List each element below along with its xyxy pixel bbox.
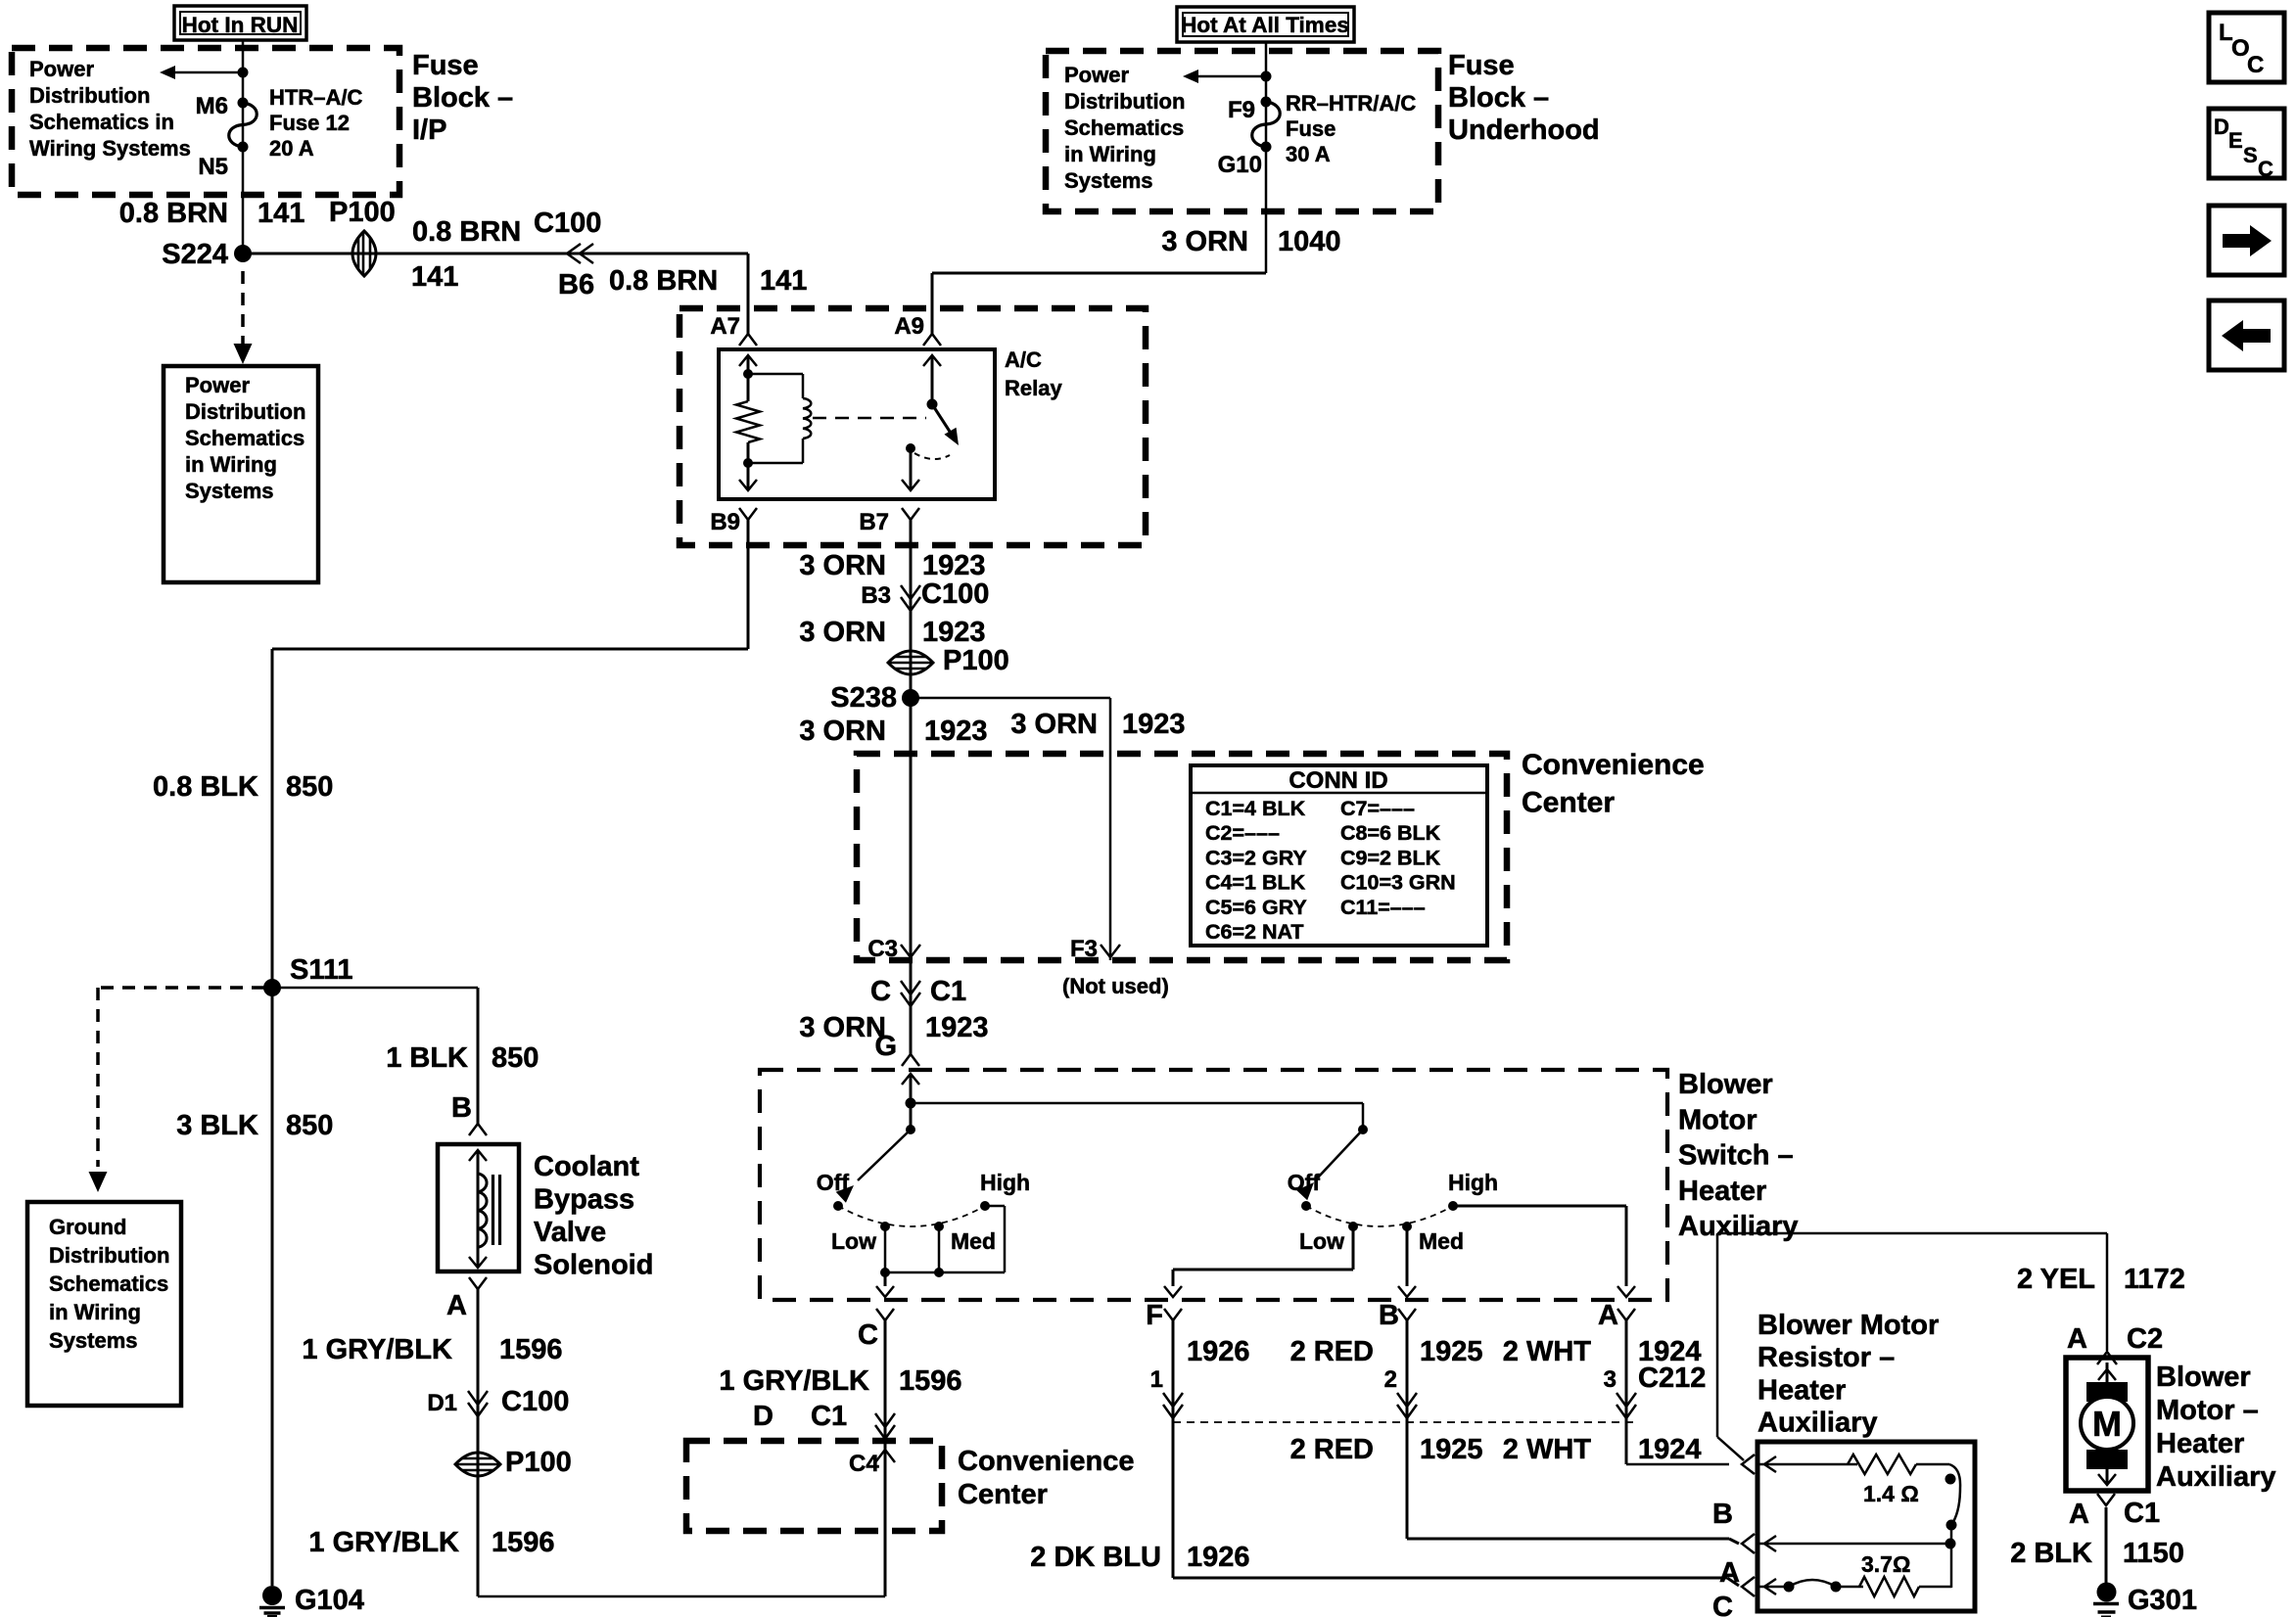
svg-text:Center: Center xyxy=(1522,787,1615,819)
svg-text:2: 2 xyxy=(1384,1366,1397,1393)
svg-text:F3: F3 xyxy=(1070,936,1098,962)
svg-text:Off: Off xyxy=(817,1170,850,1195)
svg-text:0.8 BRN: 0.8 BRN xyxy=(412,216,521,248)
svg-text:D1: D1 xyxy=(427,1390,457,1416)
svg-text:C1=4 BLK: C1=4 BLK xyxy=(1205,797,1306,820)
svg-text:3 ORN: 3 ORN xyxy=(799,617,886,648)
svg-text:Switch –: Switch – xyxy=(1678,1140,1794,1172)
svg-text:Power: Power xyxy=(185,373,250,397)
svg-text:Schematics: Schematics xyxy=(49,1271,168,1296)
svg-text:in Wiring: in Wiring xyxy=(185,452,277,477)
svg-text:3 ORN: 3 ORN xyxy=(799,716,886,747)
svg-text:Auxiliary: Auxiliary xyxy=(1757,1408,1878,1439)
svg-text:850: 850 xyxy=(286,1110,333,1141)
svg-text:I/P: I/P xyxy=(412,115,446,146)
svg-text:Systems: Systems xyxy=(49,1328,138,1353)
svg-text:Heater: Heater xyxy=(2156,1428,2244,1459)
svg-text:in Wiring: in Wiring xyxy=(1064,142,1156,166)
svg-text:C3: C3 xyxy=(867,936,898,962)
svg-text:Center: Center xyxy=(958,1479,1048,1510)
svg-text:0.8 BRN: 0.8 BRN xyxy=(119,198,228,229)
svg-text:1: 1 xyxy=(1150,1366,1163,1393)
svg-text:Blower Motor: Blower Motor xyxy=(1757,1310,1939,1341)
svg-text:B: B xyxy=(1712,1499,1733,1530)
svg-text:1596: 1596 xyxy=(899,1365,962,1397)
svg-text:Fuse: Fuse xyxy=(1286,116,1335,141)
svg-text:850: 850 xyxy=(286,771,333,803)
svg-text:C212: C212 xyxy=(1638,1363,1706,1394)
svg-text:1925: 1925 xyxy=(1420,1336,1483,1367)
svg-text:3 BLK: 3 BLK xyxy=(176,1110,258,1141)
svg-text:C: C xyxy=(858,1319,878,1351)
svg-text:Underhood: Underhood xyxy=(1448,115,1600,146)
svg-text:3 ORN: 3 ORN xyxy=(799,1012,886,1043)
svg-text:Wiring Systems: Wiring Systems xyxy=(29,136,191,161)
svg-text:1923: 1923 xyxy=(925,1012,989,1043)
svg-text:2 DK BLU: 2 DK BLU xyxy=(1030,1542,1161,1573)
svg-text:CONN ID: CONN ID xyxy=(1289,767,1387,794)
svg-text:A: A xyxy=(1598,1300,1618,1331)
svg-text:20 A: 20 A xyxy=(269,136,314,161)
svg-text:Fuse: Fuse xyxy=(1448,50,1515,81)
svg-text:S224: S224 xyxy=(162,239,228,270)
svg-text:Resistor –: Resistor – xyxy=(1757,1342,1895,1373)
svg-text:Blower: Blower xyxy=(1678,1069,1773,1100)
svg-text:Blower: Blower xyxy=(2156,1362,2251,1393)
svg-text:C6=2 NAT: C6=2 NAT xyxy=(1205,920,1304,944)
svg-text:C: C xyxy=(2247,52,2264,78)
svg-text:1040: 1040 xyxy=(1278,226,1341,257)
svg-text:Distribution: Distribution xyxy=(1064,89,1185,114)
svg-text:C9=2 BLK: C9=2 BLK xyxy=(1340,846,1441,869)
svg-text:Motor –: Motor – xyxy=(2156,1395,2259,1426)
svg-text:Power: Power xyxy=(29,57,94,81)
svg-text:A: A xyxy=(1719,1557,1740,1589)
svg-text:Systems: Systems xyxy=(1064,168,1153,193)
svg-text:1 GRY/BLK: 1 GRY/BLK xyxy=(302,1334,452,1365)
svg-text:C10=3 GRN: C10=3 GRN xyxy=(1340,871,1456,895)
svg-text:Coolant: Coolant xyxy=(534,1151,639,1182)
svg-text:D: D xyxy=(753,1401,773,1432)
svg-text:Med: Med xyxy=(951,1228,996,1254)
svg-text:1923: 1923 xyxy=(924,716,988,747)
svg-text:1150: 1150 xyxy=(2123,1538,2184,1569)
svg-text:G10: G10 xyxy=(1218,152,1262,178)
svg-text:1926: 1926 xyxy=(1187,1336,1250,1367)
svg-text:Convenience: Convenience xyxy=(1522,749,1705,781)
svg-text:B9: B9 xyxy=(710,509,740,535)
svg-text:Schematics: Schematics xyxy=(1064,115,1184,140)
svg-text:1923: 1923 xyxy=(922,617,986,648)
svg-text:P100: P100 xyxy=(943,645,1009,676)
svg-text:Systems: Systems xyxy=(185,479,274,503)
svg-text:B7: B7 xyxy=(859,509,889,535)
svg-text:2 RED: 2 RED xyxy=(1290,1434,1374,1465)
svg-text:3 ORN: 3 ORN xyxy=(799,550,886,581)
svg-text:G301: G301 xyxy=(2128,1585,2197,1616)
svg-text:3 ORN: 3 ORN xyxy=(1010,709,1098,740)
svg-text:Low: Low xyxy=(831,1228,876,1254)
svg-text:Off: Off xyxy=(1288,1170,1321,1195)
svg-text:C1: C1 xyxy=(930,976,966,1007)
svg-text:Power: Power xyxy=(1064,63,1129,87)
svg-text:in Wiring: in Wiring xyxy=(49,1300,141,1324)
svg-text:1 BLK: 1 BLK xyxy=(386,1042,468,1074)
svg-text:850: 850 xyxy=(492,1042,539,1074)
svg-text:N5: N5 xyxy=(198,154,228,180)
svg-text:Valve: Valve xyxy=(534,1217,606,1248)
svg-text:141: 141 xyxy=(411,261,458,293)
svg-text:Relay: Relay xyxy=(1005,376,1062,400)
svg-text:High: High xyxy=(1448,1170,1498,1195)
svg-text:S111: S111 xyxy=(290,954,353,986)
svg-text:A7: A7 xyxy=(710,313,740,340)
svg-text:M: M xyxy=(2092,1404,2122,1444)
svg-text:RR–HTR/A/C: RR–HTR/A/C xyxy=(1286,91,1416,115)
svg-text:D: D xyxy=(2214,115,2229,139)
svg-text:A: A xyxy=(2069,1499,2089,1530)
svg-text:3 ORN: 3 ORN xyxy=(1161,226,1248,257)
svg-text:Med: Med xyxy=(1419,1228,1464,1254)
svg-text:3: 3 xyxy=(1604,1366,1617,1393)
svg-text:Auxiliary: Auxiliary xyxy=(2156,1461,2276,1493)
svg-text:C2: C2 xyxy=(2127,1323,2163,1355)
svg-text:0.8 BLK: 0.8 BLK xyxy=(153,771,258,803)
svg-text:Block –: Block – xyxy=(1448,82,1549,114)
svg-text:B6: B6 xyxy=(558,269,594,300)
svg-text:Solenoid: Solenoid xyxy=(534,1250,653,1281)
svg-text:G104: G104 xyxy=(295,1585,364,1616)
svg-text:C2=–––: C2=––– xyxy=(1205,821,1280,845)
svg-text:2 YEL: 2 YEL xyxy=(2017,1264,2095,1295)
svg-text:C8=6 BLK: C8=6 BLK xyxy=(1340,821,1441,845)
svg-text:A9: A9 xyxy=(894,313,924,340)
svg-text:C11=–––: C11=––– xyxy=(1340,896,1426,919)
svg-text:B3: B3 xyxy=(861,582,891,609)
svg-text:Motor: Motor xyxy=(1678,1104,1757,1135)
svg-text:Schematics: Schematics xyxy=(185,426,305,450)
svg-text:A/C: A/C xyxy=(1005,347,1042,372)
svg-text:M6: M6 xyxy=(196,93,228,119)
svg-text:(Not used): (Not used) xyxy=(1062,974,1169,998)
svg-text:B: B xyxy=(1379,1300,1399,1331)
svg-text:Hot At All Times: Hot At All Times xyxy=(1181,13,1349,37)
svg-text:C: C xyxy=(2258,157,2273,181)
svg-text:C3=2 GRY: C3=2 GRY xyxy=(1205,846,1307,869)
svg-text:C4=1 BLK: C4=1 BLK xyxy=(1205,871,1306,895)
svg-text:1923: 1923 xyxy=(1122,709,1186,740)
svg-text:Distribution: Distribution xyxy=(49,1243,169,1268)
svg-text:Schematics in: Schematics in xyxy=(29,110,174,134)
svg-text:C100: C100 xyxy=(921,578,989,610)
svg-text:2 BLK: 2 BLK xyxy=(2010,1538,2092,1569)
svg-text:1596: 1596 xyxy=(499,1334,563,1365)
svg-text:P100: P100 xyxy=(505,1447,572,1478)
svg-text:0.8 BRN: 0.8 BRN xyxy=(609,265,718,297)
svg-text:30 A: 30 A xyxy=(1286,142,1331,166)
svg-text:Convenience: Convenience xyxy=(958,1446,1135,1477)
svg-text:A: A xyxy=(2067,1323,2087,1355)
svg-text:Low: Low xyxy=(1299,1228,1344,1254)
svg-text:1 GRY/BLK: 1 GRY/BLK xyxy=(308,1527,459,1558)
svg-text:P100: P100 xyxy=(329,197,396,228)
svg-text:C7=–––: C7=––– xyxy=(1340,797,1415,820)
svg-text:Ground: Ground xyxy=(49,1215,126,1239)
svg-text:C100: C100 xyxy=(534,208,601,239)
svg-text:C5=6 GRY: C5=6 GRY xyxy=(1205,896,1307,919)
svg-text:Bypass: Bypass xyxy=(534,1184,634,1216)
svg-text:C: C xyxy=(1712,1592,1733,1617)
svg-text:C: C xyxy=(870,976,891,1007)
svg-text:1926: 1926 xyxy=(1187,1542,1250,1573)
svg-text:1.4 Ω: 1.4 Ω xyxy=(1863,1481,1919,1506)
svg-text:A: A xyxy=(446,1290,467,1321)
svg-text:F9: F9 xyxy=(1228,97,1255,123)
svg-text:Fuse: Fuse xyxy=(412,50,479,81)
svg-text:1596: 1596 xyxy=(492,1527,555,1558)
svg-text:2 WHT: 2 WHT xyxy=(1503,1434,1592,1465)
svg-text:HTR–A/C: HTR–A/C xyxy=(269,85,362,110)
svg-text:1925: 1925 xyxy=(1420,1434,1483,1465)
svg-text:S238: S238 xyxy=(830,682,897,714)
svg-text:C1: C1 xyxy=(2124,1498,2160,1529)
svg-text:141: 141 xyxy=(258,198,305,229)
svg-text:3.7Ω: 3.7Ω xyxy=(1861,1551,1910,1577)
svg-text:2 WHT: 2 WHT xyxy=(1503,1336,1592,1367)
svg-text:Auxiliary: Auxiliary xyxy=(1678,1211,1799,1242)
svg-text:141: 141 xyxy=(760,265,807,297)
svg-text:F: F xyxy=(1146,1300,1163,1331)
svg-text:C100: C100 xyxy=(501,1386,569,1417)
svg-text:C1: C1 xyxy=(811,1401,847,1432)
svg-text:G: G xyxy=(874,1031,897,1062)
svg-text:Heater: Heater xyxy=(1757,1374,1846,1406)
svg-text:1924: 1924 xyxy=(1638,1434,1702,1465)
svg-text:1 GRY/BLK: 1 GRY/BLK xyxy=(719,1365,869,1397)
svg-text:C4: C4 xyxy=(849,1451,879,1477)
svg-text:Block –: Block – xyxy=(412,82,513,114)
svg-text:Fuse 12: Fuse 12 xyxy=(269,111,350,135)
svg-text:E: E xyxy=(2228,128,2243,153)
svg-text:1172: 1172 xyxy=(2124,1264,2185,1295)
svg-text:B: B xyxy=(451,1092,472,1124)
svg-text:Heater: Heater xyxy=(1678,1176,1766,1207)
svg-text:Hot In RUN: Hot In RUN xyxy=(182,13,299,37)
svg-text:S: S xyxy=(2243,143,2258,167)
svg-text:1923: 1923 xyxy=(922,550,986,581)
svg-text:Distribution: Distribution xyxy=(29,83,150,108)
svg-text:2 RED: 2 RED xyxy=(1290,1336,1374,1367)
svg-text:High: High xyxy=(980,1170,1030,1195)
svg-text:Distribution: Distribution xyxy=(185,399,305,424)
